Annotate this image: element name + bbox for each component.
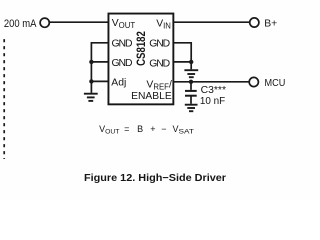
pin label ENABLE — [131, 91, 172, 102]
value label C3*** — [201, 85, 226, 96]
dashed column separator line — [3, 39, 5, 159]
wire VOUT: terminal to IC pin VOUT — [50, 21, 108, 23]
junction node GND left row3 — [89, 60, 93, 64]
wire GND right row3 — [174, 61, 191, 63]
junction node capacitor tap — [189, 80, 193, 84]
wire capacitor lead lower — [190, 96, 192, 104]
svg-text:GND: GND — [149, 39, 170, 50]
svg-text:200 mA: 200 mA — [4, 18, 37, 30]
wire GND left row2 — [91, 43, 108, 93]
svg-text:B+: B+ — [264, 19, 277, 30]
junction node GND right — [189, 60, 193, 64]
pin label GND left row2 — [112, 39, 133, 50]
terminal circle MCU — [249, 77, 258, 86]
svg-text:MCU: MCU — [265, 78, 286, 89]
svg-text:Figure 12. High−Side Driver: Figure 12. High−Side Driver — [84, 173, 226, 184]
pin label Adj — [111, 78, 126, 89]
pin label VOUT — [112, 18, 136, 30]
svg-text:ENABLE: ENABLE — [131, 91, 172, 102]
wire VIN: IC to B+ terminal — [174, 21, 250, 23]
pin label VIN — [156, 19, 171, 31]
label 200 mA — [4, 18, 37, 30]
svg-text:VOUT=B+−VSAT: VOUT=B+−VSAT — [99, 124, 194, 136]
wire VREF/ENABLE: IC to MCU terminal — [174, 81, 249, 83]
equation VOUT = B+ - VSAT — [99, 124, 194, 136]
pin label GND left row3 — [112, 58, 133, 69]
label B+ — [264, 19, 277, 30]
caption Figure 12. High-Side Driver — [84, 173, 226, 184]
value label 10 nF — [200, 96, 225, 107]
svg-text:GND: GND — [112, 39, 133, 50]
pin label GND right row3 — [149, 58, 170, 69]
capacitor C3 — [185, 91, 197, 96]
svg-text:C3***: C3*** — [201, 85, 226, 96]
svg-text:VREF/: VREF/ — [146, 80, 172, 92]
ground symbol left — [84, 94, 98, 101]
IC name CS8182 vertical — [134, 31, 148, 66]
svg-text:GND: GND — [112, 58, 133, 69]
svg-text:GND: GND — [149, 58, 170, 69]
wire Adj — [91, 80, 108, 82]
svg-text:10 nF: 10 nF — [200, 96, 225, 107]
ground symbol capacitor — [185, 105, 198, 112]
pin label GND right row2 — [149, 39, 170, 50]
terminal circle B+ — [250, 18, 259, 27]
terminal circle VOUT (200 mA) — [40, 18, 49, 27]
pin label VREF/ — [146, 80, 172, 92]
wire GND right row2 — [174, 43, 191, 70]
ground symbol right upper — [184, 70, 198, 77]
svg-text:Adj: Adj — [111, 78, 126, 89]
label MCU — [265, 78, 286, 89]
op-amp IC U1 CS8182 box — [108, 14, 173, 105]
svg-text:CS8182: CS8182 — [134, 31, 148, 66]
wire capacitor lead upper — [190, 82, 192, 90]
junction node Adj — [89, 79, 93, 83]
wire GND left row3 — [91, 61, 108, 63]
